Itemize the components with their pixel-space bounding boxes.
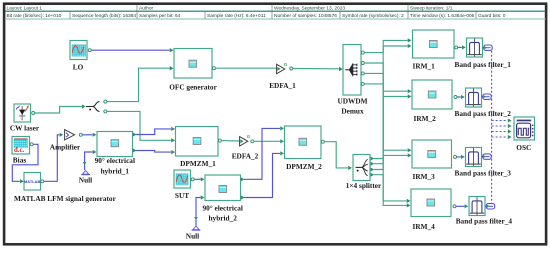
port circle IRM_1 out bbox=[455, 46, 458, 49]
90deg electrical hybrid_1 bbox=[97, 132, 133, 157]
port circle IRM_3 out bbox=[454, 155, 457, 158]
port arrow hybrid_1 in2 bbox=[93, 150, 97, 154]
connector bpf_4 out bbox=[485, 204, 495, 209]
svg-text:Layout: Layout 1: Layout: Layout 1 bbox=[7, 5, 43, 11]
port circle fork out1 bbox=[104, 100, 107, 103]
MATLAB component bbox=[24, 173, 41, 191]
wire demux out3 to IRM_3 in1 bbox=[364, 73, 407, 150]
dashed wire to OSC in2 bbox=[492, 125, 508, 127]
svg-text:MATLAB: MATLAB bbox=[24, 180, 41, 184]
svg-text:G: G bbox=[284, 62, 288, 67]
wire OFC to EDFA_1 bbox=[216, 67, 277, 69]
port circle Bias out bbox=[30, 143, 33, 146]
1x4 splitter bbox=[353, 155, 370, 181]
wire CW laser to fork bbox=[35, 107, 82, 114]
port circle hybrid_2 out2 bbox=[241, 195, 245, 199]
svg-text:SUT: SUT bbox=[175, 191, 189, 200]
port arrow bpf_1 in bbox=[462, 45, 466, 49]
port arrow splitter in bbox=[348, 166, 352, 170]
dashed wire to OSC in1 bbox=[492, 120, 508, 122]
svg-text:EDFA_1: EDFA_1 bbox=[269, 81, 296, 90]
wire demux out2 to IRM_2 in1 bbox=[364, 63, 407, 91]
header table row separator 1 bbox=[5, 10, 546, 12]
port circle CW laser out bbox=[32, 112, 35, 115]
EDFA_1 bbox=[277, 62, 288, 74]
header row1 text bbox=[7, 5, 453, 11]
wire splitter out4 to IRM_4 in2 bbox=[374, 175, 407, 206]
svg-text:Wednesday, September 13, 2023: Wednesday, September 13, 2023 bbox=[274, 5, 345, 11]
port circle IRM_2 out bbox=[454, 96, 457, 99]
svg-text:Sweep iteration: 1/1: Sweep iteration: 1/1 bbox=[410, 5, 453, 11]
port circle OFC out bbox=[213, 67, 216, 70]
svg-text:Symbol rate (symbols/sec): 2: Symbol rate (symbols/sec): 2 bbox=[342, 13, 404, 19]
port circle MATLAB out bbox=[41, 180, 44, 183]
Band pass filter_3 bbox=[466, 148, 482, 167]
wire SUT to hybrid_2 in1 bbox=[194, 178, 200, 180]
Band pass filter_4 bbox=[469, 197, 485, 216]
Null 2 bbox=[192, 226, 201, 230]
svg-text:MATLAB LFM signal generator: MATLAB LFM signal generator bbox=[14, 194, 117, 203]
Null 1 bbox=[81, 170, 90, 174]
port arrow hybrid_2 in2 bbox=[201, 195, 205, 199]
wire splitter out1 to IRM_1 in2 bbox=[374, 46, 408, 159]
port circle SUT out bbox=[191, 178, 194, 181]
SUT sine generator bbox=[174, 170, 191, 188]
port arrow on Null2 wire bbox=[194, 217, 198, 220]
port arrow DPMZM_1 in1 bbox=[171, 127, 175, 131]
svg-text:hybrid_1: hybrid_1 bbox=[101, 167, 130, 176]
CW laser bbox=[14, 104, 31, 122]
svg-text:IRM_1: IRM_1 bbox=[413, 62, 436, 71]
port arrow fork in bbox=[82, 104, 86, 108]
wire hybrid_1 out2 to DPMZM_1 in3 bbox=[136, 151, 171, 153]
port arrow OFC in2 bbox=[170, 66, 174, 70]
port arrow DPMZM_2 in1 bbox=[280, 126, 284, 130]
wire hybrid_2 out1 to DPMZM_2 in1 bbox=[244, 128, 280, 179]
svg-text:Time window (s): 1.6384e-006: Time window (s): 1.6384e-006 bbox=[410, 13, 475, 19]
svg-text:IRM_3: IRM_3 bbox=[413, 172, 436, 181]
wire EDFA_1 to demux bbox=[293, 68, 339, 70]
wire Amplifier to hybrid_1 in1 bbox=[82, 134, 92, 136]
svg-text:EDFA_2: EDFA_2 bbox=[232, 152, 259, 161]
EDFA_2 bbox=[240, 134, 251, 146]
header table row separator 2 bbox=[5, 18, 546, 20]
port circles demux outs bbox=[361, 51, 364, 54]
port arrow bpf_4 in bbox=[465, 204, 469, 208]
Amplifier bbox=[65, 130, 75, 140]
OFC generator bbox=[174, 49, 212, 79]
svg-text:Samples per bit: 64: Samples per bit: 64 bbox=[139, 13, 181, 19]
wire MATLAB to Amplifier bbox=[44, 135, 60, 182]
wire Null to hybrid_1 in2 bbox=[85, 152, 93, 170]
svg-text:G: G bbox=[247, 134, 251, 139]
90deg electrical hybrid_2 bbox=[205, 175, 241, 201]
port arrow bpf_3 in bbox=[461, 155, 465, 159]
svg-text:Demux: Demux bbox=[341, 107, 364, 116]
port arrow DPMZM_1 in2 bbox=[171, 138, 175, 142]
svg-text:OFC generator: OFC generator bbox=[169, 83, 217, 92]
port circles splitter outs bbox=[371, 157, 375, 161]
Band pass filter_1 bbox=[467, 38, 483, 57]
wire DPMZM_1 to EDFA_2 bbox=[221, 140, 239, 142]
svg-text:UDWDM: UDWDM bbox=[338, 97, 368, 106]
header column dividers row2 bbox=[70, 12, 476, 19]
port circle DPMZM_1 out bbox=[218, 139, 221, 142]
port circle LO out bbox=[88, 49, 91, 52]
svg-text:1×4 splitter: 1×4 splitter bbox=[346, 181, 382, 190]
svg-text:Null: Null bbox=[79, 176, 92, 185]
wire Null2 to hybrid_2 in2 bbox=[196, 198, 201, 226]
svg-text:IRM_2: IRM_2 bbox=[414, 114, 437, 123]
fork 1x2 bbox=[86, 102, 100, 112]
wire DPMZM_2 to splitter bbox=[324, 142, 348, 168]
svg-text:Author: Author bbox=[139, 5, 154, 11]
svg-text:Sample rate (Hz): 6.4e+011: Sample rate (Hz): 6.4e+011 bbox=[207, 13, 266, 19]
wire fork out1 to OFC in2 bbox=[107, 68, 170, 101]
port arrow Amplifier in bbox=[60, 133, 64, 137]
port arrow DPMZM_1 in3 bbox=[171, 150, 175, 154]
UDWDM Demux bbox=[343, 45, 361, 96]
wire IRM_2 to bpf_2 bbox=[457, 96, 461, 98]
sine generator LO bbox=[70, 41, 87, 60]
port circle IRM_4 out bbox=[453, 205, 456, 208]
IRM_1 bbox=[413, 30, 455, 58]
Band pass filter_2 bbox=[466, 88, 482, 107]
Bias generator bbox=[12, 137, 30, 155]
dashed monitor wire vertical bus bbox=[491, 51, 493, 204]
port arrow OFC in1 bbox=[170, 48, 174, 52]
svg-text:Number of samples: 1048576: Number of samples: 1048576 bbox=[274, 13, 337, 19]
svg-text:90° electrical: 90° electrical bbox=[202, 204, 242, 213]
OSC oscilloscope bbox=[514, 117, 535, 140]
wire Bias to MATLAB bbox=[12, 144, 38, 181]
svg-text:Bit rate (bits/sec): 1e+010: Bit rate (bits/sec): 1e+010 bbox=[7, 13, 62, 19]
connector bpf_3 out bbox=[482, 154, 492, 159]
svg-text:Null: Null bbox=[186, 232, 199, 241]
connector bpf_2 out bbox=[482, 94, 492, 99]
wire splitter out2 to IRM_2 in2 bbox=[374, 97, 408, 164]
svg-text:DPMZM_1: DPMZM_1 bbox=[180, 159, 216, 168]
port circle EDFA_2 out bbox=[251, 140, 254, 143]
svg-text:Bias: Bias bbox=[13, 156, 27, 165]
dashed wire to OSC in3 bbox=[492, 131, 508, 133]
port arrow bpf_2 in bbox=[461, 95, 465, 99]
wire LO to OFC (electrical) bbox=[91, 49, 169, 51]
svg-text:Band pass filter_1: Band pass filter_1 bbox=[455, 60, 512, 69]
svg-text:DPMZM_2: DPMZM_2 bbox=[286, 162, 322, 171]
wire IRM_3 to bpf_3 bbox=[457, 156, 461, 158]
svg-text:90° electrical: 90° electrical bbox=[95, 156, 135, 165]
port circle hybrid_2 out1 bbox=[241, 177, 245, 181]
port circle hybrid_1 out2 bbox=[133, 148, 137, 152]
port circle Amplifier out bbox=[79, 133, 82, 136]
wire EDFA_2 to DPMZM_2 in2 bbox=[254, 140, 280, 142]
svg-text:OSC: OSC bbox=[516, 143, 531, 152]
wire hybrid_2 out2 to DPMZM_2 in3 bbox=[244, 153, 280, 197]
svg-text:CW laser: CW laser bbox=[10, 124, 40, 133]
svg-text:Band pass filter_2: Band pass filter_2 bbox=[455, 109, 512, 118]
IRM_4 bbox=[411, 189, 451, 217]
DPMZM_1 bbox=[176, 127, 219, 157]
wire demux out4 to IRM_4 in1 bbox=[364, 84, 406, 201]
port circle DPMZM_2 out bbox=[321, 140, 324, 143]
IRM_2 bbox=[412, 80, 452, 109]
wire IRM_4 to bpf_4 bbox=[456, 205, 464, 207]
port circle fork out2 bbox=[104, 110, 107, 113]
svg-text:d.c.: d.c. bbox=[14, 147, 24, 154]
svg-text:hybrid_2: hybrid_2 bbox=[209, 213, 238, 222]
wire splitter out3 to IRM_3 in2 bbox=[374, 155, 408, 169]
svg-text:Band pass filter_4: Band pass filter_4 bbox=[456, 217, 513, 226]
svg-text:LO: LO bbox=[73, 63, 84, 72]
port circle EDFA_1 out bbox=[290, 67, 293, 70]
dashed wire to OSC in4 bbox=[492, 136, 508, 138]
svg-text:IRM_4: IRM_4 bbox=[413, 222, 436, 231]
DPMZM_2 bbox=[285, 126, 322, 159]
connector bpf_1 out bbox=[483, 45, 493, 50]
IRM_3 bbox=[412, 140, 452, 168]
wire demux out1 to IRM_1 in1 bbox=[364, 40, 407, 52]
port arrow DPMZM_2 in3 bbox=[280, 151, 284, 155]
wire fork out2 to DPMZM_1 in2 bbox=[107, 111, 171, 140]
svg-text:Amplifier: Amplifier bbox=[50, 143, 81, 152]
port arrow MATLAB in bbox=[20, 179, 24, 183]
header column dividers row1 bbox=[137, 5, 408, 11]
wire hybrid_1 out1 to DPMZM_1 in1 bbox=[136, 129, 171, 135]
port arrow on Null wire bbox=[83, 162, 87, 165]
svg-text:Band pass filter_3: Band pass filter_3 bbox=[455, 169, 512, 178]
port arrow DPMZM_2 in2 bbox=[280, 139, 284, 143]
port arrow demux in bbox=[339, 67, 343, 71]
port arrow hybrid_2 in1 bbox=[201, 177, 205, 181]
port circle hybrid_1 out1 bbox=[133, 132, 137, 136]
header row2 text bbox=[7, 13, 506, 19]
port arrow hybrid_1 in1 bbox=[93, 133, 97, 137]
port arrows OSC inputs bbox=[508, 118, 512, 122]
svg-text:Sequence length (bits): 16384: Sequence length (bits): 16384 bbox=[72, 13, 136, 19]
wire IRM_1 to bpf_1 bbox=[458, 46, 462, 48]
svg-text:Guard bits: 0: Guard bits: 0 bbox=[478, 13, 506, 19]
